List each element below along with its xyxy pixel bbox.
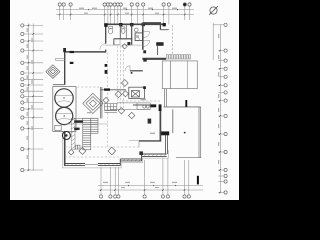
interior wall kitchen horizontal (139, 140, 161, 142)
wall stub with column mid left (101, 89, 126, 91)
top dimension line 1 (56, 9, 194, 11)
deck outline (162, 61, 197, 89)
small diamond d (118, 108, 124, 114)
wing columns dark (104, 23, 107, 27)
corner column (63, 48, 66, 52)
planter box around circles (53, 87, 76, 132)
big circle 2 (56, 107, 73, 124)
north symbol circle with slash (209, 6, 218, 15)
grid bubbles bottom row (99, 195, 190, 198)
dark wall block right lower (160, 131, 170, 135)
left wall step (53, 84, 65, 86)
kitchen counter band (104, 103, 150, 113)
right step wall horizontal (160, 29, 168, 31)
faint dimension text specks (27, 8, 220, 188)
dashed level line lower 2 (65, 156, 120, 158)
short wall below kitchen (138, 141, 140, 147)
wing right wall (142, 23, 144, 50)
bottom dimension line 1 (98, 185, 203, 187)
bottom wall main (64, 163, 120, 165)
grid bubbles left column (21, 24, 24, 172)
shower room (135, 33, 143, 41)
terrace right outline top (164, 106, 201, 108)
right upper extra vline (212, 23, 214, 60)
hatched wall beside stair (71, 118, 75, 150)
living mid wall (130, 70, 143, 72)
left dimension vline 2 (32, 24, 34, 172)
deck inner line (169, 61, 171, 89)
wall-mounted dark block on top wall (70, 51, 74, 53)
dashed level line kitchen (122, 100, 160, 102)
floor medallion large (83, 93, 103, 113)
small floor diamond 1 (68, 149, 74, 155)
bottom wall right (142, 153, 167, 155)
right letterbox bar (239, 0, 250, 200)
small floor diamond 2 (108, 147, 116, 155)
left terrace small steps (55, 59, 64, 61)
dashed level line lower (65, 146, 140, 148)
dashed continuation left (77, 86, 100, 88)
right step wall down (159, 23, 161, 30)
window gap in bottom wall (85, 163, 98, 166)
terrace right wall double (198, 107, 200, 158)
stair newel dark blocks (74, 120, 83, 123)
dashed axis pair center (120, 46, 122, 108)
dashed axis x107 (106, 53, 108, 148)
deck to terrace wall (164, 89, 166, 107)
bottom wall step riser (119, 159, 121, 166)
paper background (10, 0, 239, 200)
dark dot center (131, 72, 133, 74)
bottom grid rise lines (100, 167, 102, 195)
small diamond e (129, 112, 135, 118)
crenellated railing row (166, 55, 190, 59)
right lower wall vertical (165, 135, 167, 154)
top wing top wall (105, 23, 166, 25)
toilet (122, 29, 125, 34)
tick marks on dimension lines (28, 9, 221, 193)
living room top wall (64, 51, 106, 53)
right bubble connectors (213, 24, 223, 26)
top grid drop lines (59, 6, 61, 20)
circle 1 inner detail (56, 96, 72, 103)
sink (109, 29, 113, 34)
small floor diamond 1b (79, 148, 86, 155)
left wall lower (64, 131, 66, 165)
left dimension vline 1 (28, 24, 30, 172)
kitchen corner dark L (150, 104, 156, 107)
grid bubbles top row (58, 3, 191, 6)
small diamond b (103, 97, 109, 103)
small diamond axis (121, 80, 128, 87)
stair side flight (91, 118, 98, 133)
top wall right extension (143, 22, 161, 24)
elevator shaft inner with X (131, 91, 139, 97)
small diamond on line y46 (122, 44, 127, 49)
door arc living (125, 66, 130, 71)
stair top landing line (74, 117, 98, 119)
door jamb blocks (143, 50, 146, 53)
dashed boundary right (172, 25, 174, 55)
dark column at stair (62, 132, 70, 140)
column on left axis (105, 70, 108, 74)
top dimension line 2 (56, 14, 194, 16)
section mark upper (185, 100, 187, 107)
floor medallion upper left (46, 65, 60, 79)
small diamond c (123, 91, 129, 97)
thin line y45 wing base (105, 44, 144, 46)
living room left wall upper (64, 52, 66, 85)
interior wall kitchen vertical (159, 107, 161, 141)
thin level line dining (65, 123, 108, 125)
elevator shaft outer (129, 87, 145, 98)
stair block (83, 118, 91, 150)
kitchen top wall (133, 104, 150, 106)
left bubble connectors (24, 24, 43, 26)
thick wall above deck (142, 58, 166, 60)
dark block lower (70, 62, 74, 64)
small diamond b2 (115, 91, 122, 98)
closet dark block (156, 42, 163, 46)
bathroom partition verticals (113, 39, 115, 45)
lower cabinets (75, 145, 80, 149)
bottom outline offset (63, 132, 169, 168)
dashed axis x117 (116, 46, 118, 105)
section mark lower (197, 176, 199, 185)
terrace dot (184, 132, 186, 134)
right dimension vline (220, 25, 222, 193)
terrace bottom (176, 157, 201, 159)
bottom wall step riser 2 (141, 154, 143, 161)
terrace left wall (172, 110, 174, 134)
thin line inside step (129, 139, 151, 141)
bottom wall step (120, 158, 141, 160)
big circle 1 (55, 89, 73, 107)
dining left wall (99, 87, 101, 118)
circle 2 inner detail (57, 114, 73, 121)
wing left wall (105, 24, 107, 52)
left letterbox bar (0, 0, 10, 200)
column on left axis b (105, 64, 108, 67)
door arc 2 on right wall (144, 40, 150, 46)
door arc 1 on right wall (144, 32, 150, 38)
bottom dimension line 2 (98, 189, 203, 191)
grid bubbles right column (224, 23, 227, 194)
door gap in wing left wall (105, 44, 107, 50)
kitchen dark appliance (148, 119, 152, 124)
bathroom partition horizontal (114, 38, 133, 40)
